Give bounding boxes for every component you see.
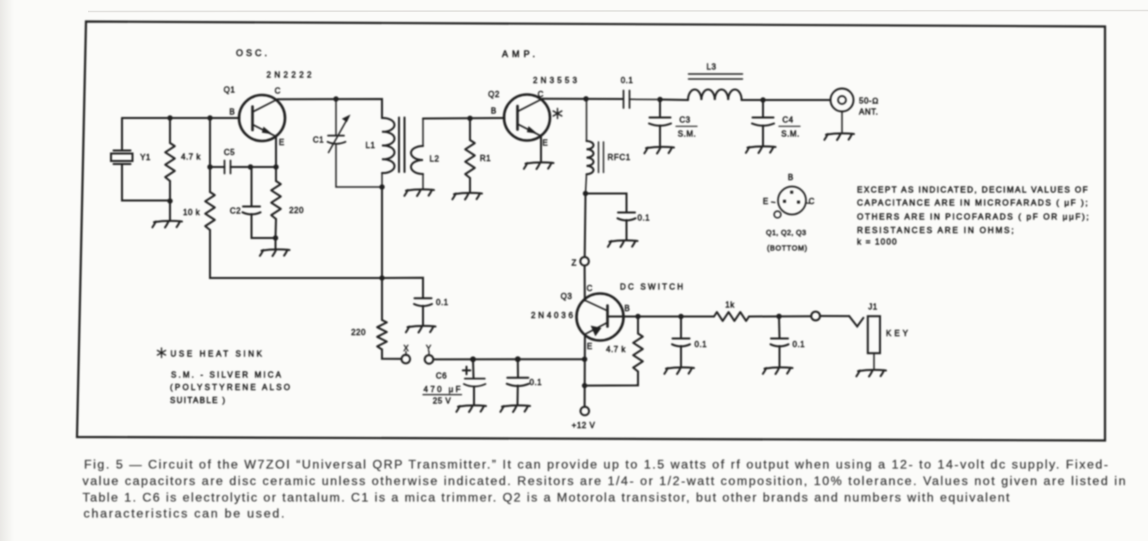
svg-text:EXCEPT AS INDICATED, DECIMAL V: EXCEPT AS INDICATED, DECIMAL VALUES OF bbox=[857, 186, 1088, 195]
terminal +12V bbox=[581, 407, 590, 416]
svg-text:X: X bbox=[403, 344, 409, 353]
svg-text:(BOTTOM): (BOTTOM) bbox=[767, 244, 807, 253]
svg-text:Y: Y bbox=[426, 344, 432, 353]
svg-text:C1: C1 bbox=[313, 136, 324, 145]
node: junction C2/220 bbox=[273, 235, 278, 240]
label +12V bbox=[572, 421, 596, 430]
svg-text:10 k: 10 k bbox=[183, 208, 201, 217]
svg-text:0.1: 0.1 bbox=[530, 378, 543, 387]
tick below Y label bbox=[428, 352, 430, 356]
svg-text:C3: C3 bbox=[679, 116, 690, 125]
svg-text:ANT.: ANT. bbox=[859, 108, 878, 117]
ground (Q2 emitter) bbox=[524, 162, 554, 169]
svg-text:RFC1: RFC1 bbox=[608, 153, 631, 162]
label (BOTTOM) bbox=[767, 244, 807, 253]
svg-text:C4: C4 bbox=[782, 116, 793, 125]
wire: stem to ground bbox=[275, 238, 277, 250]
ground (under bottom 0.1) bbox=[500, 405, 530, 412]
svg-text:S.M.: S.M. bbox=[781, 130, 799, 139]
svg-text:C: C bbox=[809, 197, 815, 206]
asterisk (heat sink mark at Q2) bbox=[553, 109, 562, 119]
label C1 bbox=[313, 136, 324, 145]
label 220 (Q1) bbox=[289, 206, 304, 215]
svg-text:SUITABLE ): SUITABLE ) bbox=[170, 396, 225, 405]
label AMP. bbox=[502, 49, 535, 59]
wire: L1 bottom to lower rail bbox=[381, 187, 383, 278]
wire: crystal branch bbox=[122, 118, 170, 201]
label C (Q2) bbox=[538, 90, 544, 99]
resistor 1k bbox=[714, 312, 811, 321]
node: junction C5/emitter/220 bbox=[273, 164, 278, 169]
core of RFC1 bbox=[599, 142, 604, 173]
svg-text:E: E bbox=[763, 197, 768, 206]
svg-text:USE HEAT SINK: USE HEAT SINK bbox=[171, 350, 263, 359]
label Z bbox=[572, 259, 577, 268]
terminal (key line circle) bbox=[811, 312, 820, 321]
node: junction C4 bbox=[760, 97, 765, 102]
label Q3 bbox=[561, 292, 573, 301]
label L3 bbox=[707, 63, 717, 72]
ground (under L2) bbox=[404, 189, 434, 196]
wire: Q3 emitter drop bbox=[584, 335, 586, 407]
node: junction 0.1 (bottom) bbox=[515, 356, 521, 362]
label 0.1 (bypass) bbox=[638, 214, 651, 223]
svg-text:KEY: KEY bbox=[886, 329, 909, 338]
label X bbox=[403, 344, 409, 353]
svg-text:25 V: 25 V bbox=[433, 397, 452, 406]
label RFC1 bbox=[608, 153, 631, 162]
wire: base junction to 0.1/1k bbox=[638, 316, 714, 318]
ground (under C4) bbox=[746, 146, 776, 153]
svg-text:C: C bbox=[538, 90, 544, 99]
svg-text:Q2: Q2 bbox=[488, 90, 500, 99]
svg-text:2N4036: 2N4036 bbox=[531, 311, 574, 320]
svg-text:1k: 1k bbox=[725, 301, 735, 310]
svg-text:C6: C6 bbox=[436, 372, 447, 381]
label C2 bbox=[230, 207, 241, 216]
label C4 / S.M. bbox=[779, 116, 800, 139]
svg-text:L2: L2 bbox=[430, 155, 440, 164]
svg-text:OSC.: OSC. bbox=[236, 48, 267, 58]
label B (Q1) bbox=[229, 108, 234, 117]
label Y bbox=[426, 344, 432, 353]
capacitor C2 bbox=[243, 167, 276, 238]
svg-text:C5: C5 bbox=[224, 148, 235, 157]
ground (under bypass 0.1) bbox=[608, 240, 638, 247]
node: junction lower rail bbox=[379, 275, 384, 280]
tick below X label bbox=[405, 352, 407, 356]
label 0.1 (middle) bbox=[436, 298, 449, 307]
transistor Q3 2N4036 bbox=[577, 294, 624, 341]
node: base junction at 10k bbox=[207, 115, 212, 120]
svg-text:0.1: 0.1 bbox=[436, 298, 449, 307]
svg-text:2N2222: 2N2222 bbox=[267, 71, 313, 80]
resistor 10k bbox=[205, 118, 382, 278]
svg-text:470 μF: 470 μF bbox=[424, 385, 461, 394]
transformer core T1 bbox=[399, 118, 405, 173]
svg-text:2N3553: 2N3553 bbox=[533, 76, 578, 85]
ground (under R1) bbox=[452, 193, 482, 200]
label C5 bbox=[224, 148, 235, 157]
node: junction 10k/C5 bbox=[207, 164, 212, 169]
wire: RFC1 junction down to Z bbox=[584, 194, 587, 258]
svg-text:OTHERS ARE IN PICOFARADS ( pF: OTHERS ARE IN PICOFARADS ( pF OR μμF); bbox=[857, 213, 1089, 222]
node: base junction at 4.7k bbox=[167, 115, 172, 120]
label J1 bbox=[868, 303, 878, 312]
node: junction RFC1 bottom bbox=[583, 191, 588, 196]
svg-text:E: E bbox=[279, 138, 284, 147]
label B (Q2) bbox=[491, 107, 496, 116]
label L1 bbox=[366, 141, 376, 150]
svg-text:(POLYSTYRENE ALSO: (POLYSTYRENE ALSO bbox=[170, 383, 290, 392]
wire: Q3 base to junction bbox=[608, 316, 639, 318]
label 2N2222 bbox=[267, 71, 313, 80]
ground (under ANT) bbox=[824, 133, 854, 140]
label DC SWITCH bbox=[620, 283, 683, 292]
photo top edge faint line bbox=[88, 11, 1148, 12]
wire: junction to L3 bbox=[660, 99, 688, 102]
label KEY bbox=[886, 329, 909, 338]
ground (under key line right 0.1) bbox=[763, 367, 793, 374]
node: junction C3 bbox=[657, 97, 662, 102]
label E (Q3) bbox=[587, 342, 592, 351]
svg-text:4.7 k: 4.7 k bbox=[606, 345, 626, 354]
wire: L3 to C4/ANT bbox=[742, 99, 831, 101]
node: junction L1/C1 bottom bbox=[379, 184, 384, 189]
svg-text:Q3: Q3 bbox=[561, 292, 573, 301]
svg-text:Z: Z bbox=[572, 259, 577, 268]
svg-text:220: 220 bbox=[289, 206, 304, 215]
ground (under middle 0.1) bbox=[406, 326, 436, 333]
inductor RFC1 bbox=[586, 99, 594, 194]
svg-text:0.1: 0.1 bbox=[695, 340, 708, 349]
label C (pinout) bbox=[809, 197, 815, 206]
capacitor C6 470uF electrolytic bbox=[463, 359, 486, 404]
wire: Q1 collector rail bbox=[278, 99, 383, 118]
svg-text:B: B bbox=[229, 108, 234, 117]
svg-text:220: 220 bbox=[351, 328, 366, 337]
node: junction 0.1 (Q3 base) bbox=[678, 314, 683, 319]
wire: Q2 collector rail bbox=[543, 98, 624, 100]
svg-text:Fig. 5 — Circuit of the W7ZOI: Fig. 5 — Circuit of the W7ZOI “Universal… bbox=[84, 458, 1108, 472]
label 220 (dc feed) bbox=[351, 328, 366, 337]
capacitor C1 (trimmer) bbox=[328, 99, 383, 187]
svg-text:value capacitors are disc cera: value capacitors are disc ceramic unless… bbox=[83, 474, 1126, 488]
svg-text:S.M.: S.M. bbox=[678, 130, 696, 139]
svg-text:4.7 k: 4.7 k bbox=[181, 153, 201, 162]
svg-text:50-Ω: 50-Ω bbox=[859, 97, 879, 106]
capacitor 0.1 (key line right) bbox=[771, 316, 789, 367]
svg-text:L1: L1 bbox=[366, 141, 376, 150]
note: use heat sink bbox=[157, 348, 262, 359]
label 0.1 (key line right) bbox=[793, 340, 806, 349]
wire: Z to Q3 collector bbox=[584, 266, 586, 301]
terminal X bbox=[402, 355, 411, 364]
svg-text:+12 V: +12 V bbox=[572, 421, 596, 430]
wire: L2 top to Q2 base bbox=[423, 117, 505, 120]
svg-text:C2: C2 bbox=[230, 207, 241, 216]
transistor Q1 2N2222 bbox=[239, 95, 285, 141]
node: junction emitter/key rail bbox=[582, 357, 587, 362]
label 0.1 (coupling) bbox=[621, 76, 634, 85]
svg-text:Table 1. C6 is electrolytic or: Table 1. C6 is electrolytic or tantalum.… bbox=[83, 491, 1011, 505]
node: junction R1/base bbox=[467, 116, 472, 121]
svg-text:B: B bbox=[788, 173, 793, 182]
svg-text:E: E bbox=[587, 342, 592, 351]
label 50-ohm ANT. bbox=[859, 97, 879, 117]
node: junction C6 bbox=[470, 356, 476, 362]
node: junction crystal/4.7k bbox=[167, 198, 172, 203]
ground (under key line left 0.1) bbox=[664, 367, 694, 374]
page left edge shading bbox=[0, 0, 14, 541]
ground (under 4.7k) bbox=[152, 221, 182, 228]
svg-text:S.M. - SILVER MICA: S.M. - SILVER MICA bbox=[171, 371, 282, 380]
svg-text:DC SWITCH: DC SWITCH bbox=[620, 283, 683, 292]
label 10k bbox=[183, 208, 201, 217]
svg-text:RESISTANCES ARE IN OHMS;: RESISTANCES ARE IN OHMS; bbox=[857, 226, 1014, 235]
svg-text:Y1: Y1 bbox=[140, 153, 151, 162]
label 2N3553 bbox=[533, 76, 578, 85]
label B (pinout) bbox=[788, 173, 793, 182]
label Q2 bbox=[488, 90, 500, 99]
label 4.7k (Q3) bbox=[606, 345, 626, 354]
resistor R1 bbox=[465, 118, 475, 192]
label C (Q3) bbox=[587, 284, 593, 293]
capacitor C3 S.M. bbox=[649, 100, 671, 147]
svg-text:AMP.: AMP. bbox=[502, 49, 535, 59]
capacitor C4 S.M. bbox=[752, 100, 774, 146]
wire: Q1 base rail bbox=[122, 117, 240, 119]
ground (under 220) bbox=[260, 249, 290, 256]
svg-text:B: B bbox=[491, 107, 496, 116]
label E (pinout) bbox=[763, 197, 768, 206]
resistor 4.7k (Q3) bbox=[585, 317, 643, 386]
wire: stem to ground bbox=[169, 201, 171, 221]
label Q1 bbox=[224, 86, 236, 95]
capacitor 0.1 (bottom) bbox=[507, 359, 529, 404]
svg-text:J1: J1 bbox=[868, 303, 878, 312]
label C (Q1) bbox=[275, 87, 281, 96]
label 2N4036 bbox=[531, 311, 574, 320]
svg-text:CAPACITANCE ARE IN MICROFARADS: CAPACITANCE ARE IN MICROFARADS ( μF ); bbox=[857, 199, 1088, 208]
note: decimal values text block bbox=[857, 186, 1089, 247]
crystal Y1 bbox=[111, 151, 133, 165]
label OSC. bbox=[236, 48, 267, 58]
svg-text:Q1: Q1 bbox=[224, 86, 236, 95]
wire: Y to Q3 emitter rail bbox=[433, 358, 584, 360]
label E (Q2) bbox=[542, 139, 547, 148]
wire: Q2 emitter drop bbox=[540, 136, 542, 162]
capacitor 0.1 (key line left) bbox=[672, 317, 690, 368]
node: junction collector/RFC1 bbox=[583, 96, 588, 101]
node: junction base/4.7k bbox=[635, 314, 640, 319]
inductor L2 bbox=[411, 119, 423, 190]
node: junction emitter/4.7k return bbox=[582, 383, 587, 388]
terminal Y bbox=[425, 355, 434, 364]
inductor L1 bbox=[382, 118, 394, 187]
ground (under C3) bbox=[644, 147, 674, 154]
label 0.1 (bottom) bbox=[530, 378, 543, 387]
svg-text:B: B bbox=[624, 304, 629, 313]
connector J ANT (coax jack) bbox=[831, 89, 854, 134]
inductor L3 bbox=[688, 89, 742, 100]
capacitor C5 bbox=[210, 161, 276, 174]
wire: Q1 emitter drop bbox=[275, 137, 277, 168]
svg-text:C: C bbox=[275, 87, 281, 96]
svg-text:E: E bbox=[542, 139, 547, 148]
ground (under C6) bbox=[456, 405, 486, 412]
svg-text:C: C bbox=[587, 284, 593, 293]
wire: lower rail to 0.1 middle cap bbox=[382, 278, 423, 298]
capacitor 0.1 (coupling) bbox=[624, 91, 661, 109]
transistor pinout circle bbox=[772, 187, 810, 218]
resistor 220 (Q1 emitter) bbox=[271, 167, 281, 238]
svg-text:0.1: 0.1 bbox=[793, 340, 806, 349]
terminal Z bbox=[580, 257, 589, 266]
label Q1, Q2, Q3 bbox=[766, 228, 806, 237]
transistor Q2 2N3553 bbox=[504, 95, 550, 141]
resistor 4.7k (Q1 base) bbox=[165, 118, 175, 201]
caption paragraph bbox=[83, 458, 1126, 521]
label 4.7k bbox=[181, 153, 201, 162]
svg-text:L3: L3 bbox=[707, 63, 717, 72]
label L2 bbox=[430, 155, 440, 164]
svg-text:R1: R1 bbox=[480, 154, 491, 163]
capacitor 0.1 (middle) bbox=[414, 298, 432, 325]
label B (Q3) bbox=[624, 304, 629, 313]
label E (Q1) bbox=[279, 138, 284, 147]
resistor 220 (dc feed) bbox=[377, 278, 401, 359]
label Y1 bbox=[140, 153, 151, 162]
label R1 bbox=[480, 154, 491, 163]
svg-text:k = 1000: k = 1000 bbox=[857, 238, 897, 247]
svg-text:Q1, Q2, Q3: Q1, Q2, Q3 bbox=[766, 228, 806, 237]
ground (under J1) bbox=[856, 370, 886, 377]
border frame of schematic bbox=[77, 22, 1105, 441]
core of L3 bbox=[689, 74, 743, 79]
node: junction 0.1 (key line right) bbox=[776, 314, 781, 319]
label 1k bbox=[725, 301, 735, 310]
wire: circle to key contact bbox=[820, 316, 863, 327]
capacitor 0.1 (collector bypass) bbox=[586, 194, 636, 241]
svg-text:0.1: 0.1 bbox=[621, 76, 634, 85]
label C6 470uF 25V bbox=[423, 372, 462, 406]
note: silver mica bbox=[170, 371, 290, 406]
jack J1 KEY bbox=[868, 316, 880, 368]
node: junction collector/C1 bbox=[333, 96, 338, 101]
svg-text:characteristics can be used.: characteristics can be used. bbox=[84, 507, 285, 521]
svg-text:0.1: 0.1 bbox=[638, 214, 651, 223]
label C3 / S.M. bbox=[676, 116, 697, 139]
label 0.1 (key line left) bbox=[695, 340, 708, 349]
node: junction C5/C2 bbox=[248, 164, 253, 169]
